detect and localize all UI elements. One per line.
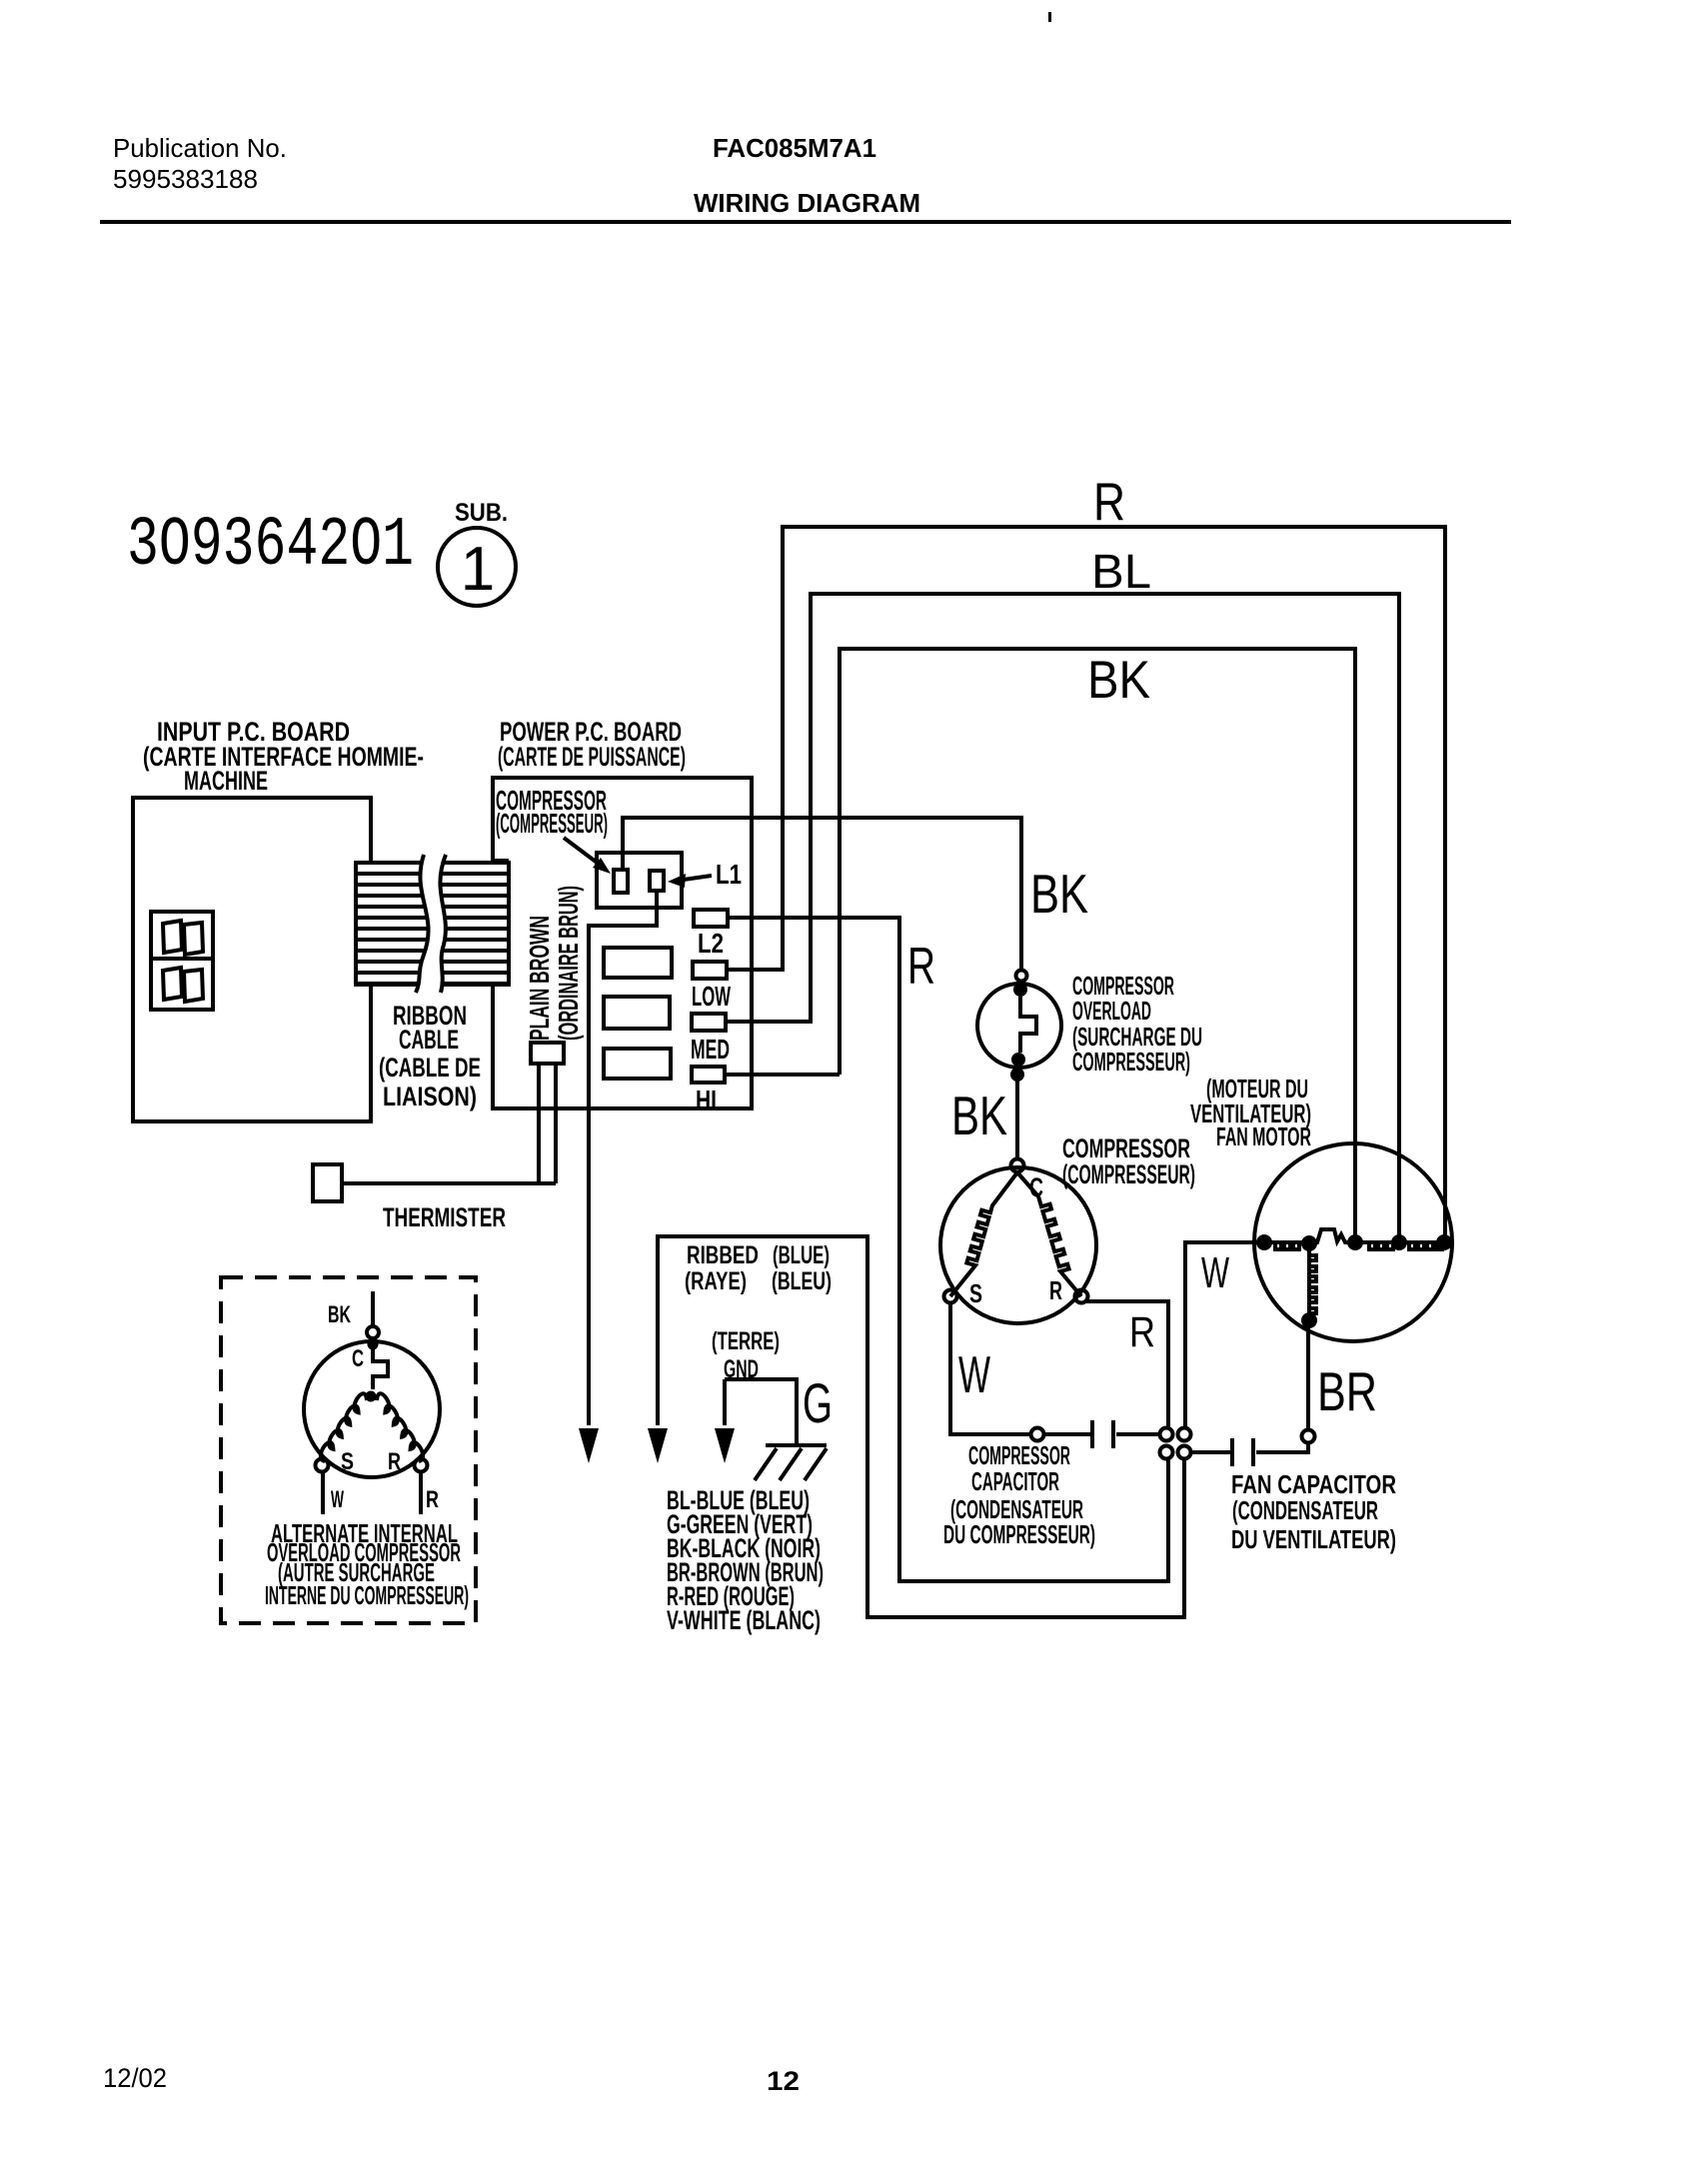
alt R terminal — [415, 1459, 428, 1472]
svg-text:COMPRESSEUR): COMPRESSEUR) — [1072, 1047, 1190, 1077]
svg-text:G: G — [803, 1371, 833, 1434]
overload top terminal — [1016, 971, 1027, 982]
terminal LOW — [693, 962, 727, 979]
alternate overload dashed box — [221, 1277, 476, 1623]
arrow to pin L1 — [684, 876, 712, 880]
wire L2 to R drop — [728, 918, 1168, 1581]
svg-text:THERMISTER: THERMISTER — [383, 1202, 506, 1232]
wire pin2 down (plain brown) — [589, 891, 657, 1425]
svg-text:1: 1 — [461, 535, 495, 604]
junction terminal cluster — [1160, 1428, 1173, 1441]
svg-text:R: R — [907, 938, 935, 996]
svg-text:HI: HI — [696, 1085, 717, 1115]
alt wire from box top — [371, 1291, 375, 1326]
svg-text:(BLEU): (BLEU) — [772, 1267, 832, 1295]
ground bracket wire — [725, 1379, 797, 1445]
wire junction to fan capacitor — [1191, 1450, 1230, 1454]
svg-text:BK: BK — [328, 1301, 351, 1328]
arrow end of ribbed blue wire — [648, 1428, 668, 1463]
svg-text:LIAISON): LIAISON) — [383, 1082, 477, 1111]
svg-text:12/02: 12/02 — [103, 2063, 167, 2093]
ground symbol hatches — [755, 1445, 827, 1480]
compressor R terminal — [1075, 1290, 1088, 1303]
svg-text:(CONDENSATEUR: (CONDENSATEUR — [1232, 1495, 1378, 1525]
svg-text:(BLUE): (BLUE) — [773, 1241, 830, 1269]
wire compressor pin1 to overload (BK) — [623, 818, 1021, 970]
alt start winding — [321, 1393, 367, 1461]
svg-text:LOW: LOW — [692, 981, 731, 1012]
thermistor connector on board — [531, 1043, 564, 1064]
power P.C. board box — [493, 778, 752, 1108]
alternate compressor circle — [304, 1341, 440, 1477]
connector pin 2 — [650, 871, 664, 891]
svg-text:(ORDINAIRE BRUN): (ORDINAIRE BRUN) — [553, 886, 584, 1041]
svg-text:BR: BR — [1317, 1360, 1377, 1422]
sub revision circle 1 — [438, 528, 516, 606]
terminal L2 — [694, 910, 728, 927]
wire LOW to R loop — [727, 968, 783, 972]
alt S lead wire — [321, 1472, 325, 1514]
alt top terminal — [367, 1326, 379, 1338]
svg-text:12: 12 — [767, 2066, 800, 2096]
alt run winding — [377, 1393, 423, 1461]
svg-text:5995383188: 5995383188 — [113, 164, 258, 194]
relay box 1 — [604, 948, 672, 978]
terminal circle on W wire — [1031, 1428, 1044, 1441]
svg-text:FAN MOTOR: FAN MOTOR — [1216, 1121, 1311, 1151]
fan motor main winding — [1257, 1229, 1444, 1242]
wire junction to legend box (ribbed blue) — [658, 1236, 1184, 1617]
fan winding taps — [1256, 1234, 1272, 1250]
svg-text:BL: BL — [1091, 546, 1151, 599]
input P.C. board box — [133, 798, 371, 1121]
wire compressor R to junction — [1086, 1301, 1168, 1427]
thermistor wires — [342, 1064, 556, 1183]
wire HI to BK loop — [725, 1073, 840, 1077]
alt R lead wire — [419, 1472, 423, 1514]
svg-text:BK: BK — [1087, 651, 1150, 710]
svg-text:(RAYE): (RAYE) — [685, 1267, 747, 1295]
svg-text:R: R — [1093, 473, 1125, 532]
svg-text:(CABLE DE: (CABLE DE — [379, 1053, 481, 1083]
svg-text:(CARTE DE PUISSANCE): (CARTE DE PUISSANCE) — [498, 742, 686, 772]
svg-text:R: R — [1049, 1275, 1062, 1305]
compressor capacitor — [1092, 1420, 1113, 1448]
wire R top loop — [783, 527, 1445, 1239]
wire fan capacitor to fan (BR) — [1306, 1320, 1310, 1429]
compressor start winding — [950, 1172, 1017, 1296]
svg-text:BK: BK — [1030, 863, 1088, 925]
connector pin 1 — [614, 870, 628, 893]
fan motor aux winding — [1307, 1248, 1311, 1314]
compressor C terminal — [1011, 1159, 1024, 1172]
svg-text:MED: MED — [691, 1034, 730, 1065]
svg-text:R: R — [426, 1486, 439, 1513]
svg-text:L1: L1 — [716, 859, 742, 890]
svg-text:DU VENTILATEUR): DU VENTILATEUR) — [1231, 1524, 1396, 1554]
svg-text:RIBBED: RIBBED — [687, 1241, 759, 1269]
alt S terminal — [316, 1459, 329, 1472]
svg-text:MACHINE: MACHINE — [184, 766, 268, 796]
svg-text:3O93642O1: 3O93642O1 — [127, 507, 414, 586]
terminal HI — [692, 1067, 725, 1083]
compressor run winding — [1017, 1172, 1081, 1296]
svg-text:L2: L2 — [698, 928, 724, 959]
svg-text:SUB.: SUB. — [455, 499, 508, 527]
svg-text:R: R — [1129, 1308, 1155, 1356]
svg-text:W: W — [1201, 1248, 1229, 1297]
display icon on input board — [151, 912, 213, 1010]
overload internal switch — [1013, 983, 1027, 997]
svg-text:DU COMPRESSEUR): DU COMPRESSEUR) — [943, 1519, 1095, 1549]
svg-text:(COMPRESSEUR): (COMPRESSEUR) — [1062, 1159, 1195, 1189]
svg-text:FAC085M7A1: FAC085M7A1 — [713, 133, 876, 163]
svg-text:INTERNE DU COMPRESSEUR): INTERNE DU COMPRESSEUR) — [265, 1580, 469, 1610]
fan capacitor — [1232, 1438, 1253, 1466]
ribbon cable break (S curves) — [416, 855, 446, 993]
compressor connector box — [597, 853, 682, 908]
header rule — [100, 220, 1511, 224]
relay box 3 — [604, 1049, 671, 1079]
thermistor bulb — [313, 1164, 342, 1201]
fan motor circle — [1254, 1143, 1452, 1341]
wire MED to BL loop — [726, 1020, 811, 1024]
arrow end of plain brown wire — [579, 1428, 599, 1463]
svg-text:C: C — [352, 1345, 364, 1372]
wire BK top loop — [840, 649, 1355, 1239]
compressor circle — [940, 1167, 1096, 1323]
svg-text:Publication No.: Publication No. — [113, 133, 287, 163]
arrow end of ground left leg — [715, 1428, 735, 1463]
svg-text:(TERRE): (TERRE) — [712, 1327, 780, 1355]
svg-text:W: W — [958, 1346, 990, 1404]
svg-text:WIRING DIAGRAM: WIRING DIAGRAM — [694, 188, 920, 218]
wire junction to fan motor (W) — [1185, 1242, 1257, 1427]
svg-text:BK: BK — [951, 1085, 1007, 1146]
alt internal switch — [368, 1339, 379, 1350]
ribbon cable block — [356, 863, 509, 985]
svg-text:(COMPRESSEUR): (COMPRESSEUR) — [496, 808, 608, 839]
wire overload to compressor (BK) — [1015, 1081, 1019, 1158]
svg-text:R: R — [388, 1448, 401, 1475]
svg-text:W: W — [331, 1486, 344, 1513]
page top tick mark — [1048, 12, 1051, 22]
svg-text:PLAIN BROWN: PLAIN BROWN — [524, 916, 555, 1041]
compressor overload circle — [977, 984, 1061, 1068]
wire S to compressor capacitor (W) — [950, 1303, 1090, 1434]
svg-text:S: S — [969, 1278, 982, 1308]
wire BL top loop — [811, 594, 1399, 1239]
compressor connector arrow — [564, 838, 600, 865]
compressor S terminal — [944, 1290, 957, 1303]
svg-text:V-WHITE (BLANC): V-WHITE (BLANC) — [667, 1605, 821, 1635]
relay box 2 — [604, 997, 670, 1029]
svg-text:CABLE: CABLE — [399, 1025, 459, 1055]
svg-text:S: S — [341, 1448, 354, 1475]
svg-text:CAPACITOR: CAPACITOR — [971, 1466, 1059, 1496]
fan capacitor terminal circle — [1302, 1430, 1315, 1443]
terminal MED — [692, 1014, 726, 1031]
